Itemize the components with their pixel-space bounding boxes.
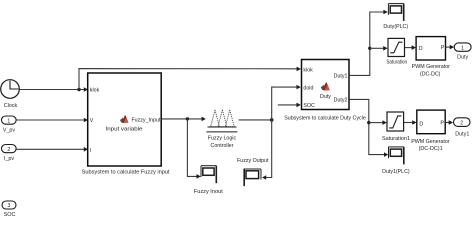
inport 2 I_pv: [2, 145, 17, 162]
svg-text:P: P: [440, 120, 444, 126]
svg-text:Clock: Clock: [4, 103, 18, 109]
svg-text:I: I: [90, 148, 91, 154]
svg-text:D: D: [419, 121, 423, 127]
outport 1 Duty: [454, 43, 471, 61]
svg-text:P: P: [441, 45, 445, 51]
wire Fuzzy_Input output to Fuzzy Logic Controller: [161, 117, 205, 122]
scope Fuzzy Inout: [194, 166, 224, 196]
svg-text:SOC: SOC: [303, 103, 315, 109]
svg-text:Duty2: Duty2: [334, 98, 348, 104]
wire PWM1 output to outport 2: [445, 120, 453, 125]
svg-text:PWM Generator: PWM Generator: [412, 64, 451, 70]
fuzzy-logic-controller bottom edge: [206, 131, 237, 133]
svg-text:1: 1: [7, 118, 10, 124]
svg-text:Duty: Duty: [457, 55, 468, 61]
wire Duty1 branch to Saturation: [370, 46, 388, 51]
node junction on clock wire: [77, 88, 80, 91]
wire fuzzy output up to dold input: [272, 85, 301, 120]
clock Clock: [1, 80, 20, 109]
svg-text:Fuzzy Logic: Fuzzy Logic: [208, 136, 237, 142]
wire Duty2 branch to Saturation1: [369, 120, 387, 125]
svg-text:Fuzzy Output: Fuzzy Output: [237, 158, 269, 164]
svg-text:I_pv: I_pv: [4, 156, 14, 162]
svg-text:Duty: Duty: [320, 94, 331, 100]
svg-text:Fuzzy Inout: Fuzzy Inout: [194, 189, 224, 195]
svg-text:(DC-DC)1: (DC-DC)1: [419, 146, 443, 152]
svg-text:2: 2: [7, 147, 10, 153]
svg-text:Input variable: Input variable: [106, 127, 143, 133]
svg-text:Fuzzy_Input: Fuzzy_Input: [131, 118, 160, 124]
subsystem U1 Subsystem to calculate Fuzzy input: [88, 73, 162, 166]
pwm-generator block PWM Generator (DC-DC)1: [411, 110, 450, 152]
scope Duty(PLC): [383, 4, 408, 30]
svg-text:Saturation1: Saturation1: [382, 136, 410, 142]
wire fuzzy controller output: [239, 119, 272, 121]
svg-text:Subsystem to calculate Fuzzy i: Subsystem to calculate Fuzzy input: [82, 170, 171, 176]
wire Saturation1 to PWM Generator (DC-DC)1: [404, 120, 417, 125]
svg-text:klok: klok: [303, 67, 313, 73]
MATLAB function icon inside U1: [120, 115, 129, 123]
svg-text:2: 2: [460, 120, 463, 126]
scope Duty1(PLC): [382, 147, 410, 175]
outport 2 Duty1: [454, 118, 471, 138]
svg-text:3: 3: [8, 203, 11, 209]
svg-text:V: V: [90, 118, 94, 124]
svg-text:klok: klok: [90, 88, 100, 94]
svg-text:Controller: Controller: [211, 143, 234, 149]
wire Duty1 output up to Duty(PLC) scope: [349, 10, 388, 76]
subsystem U3 Subsystem to calculate Duty Cycle: [302, 60, 350, 110]
svg-text:1: 1: [461, 45, 464, 51]
svg-text:(DC-DC): (DC-DC): [420, 72, 441, 78]
node junction Duty2: [367, 121, 370, 124]
wire PWM output to outport 1: [446, 45, 455, 50]
saturation block Saturation1: [382, 112, 410, 142]
svg-text:Duty1: Duty1: [334, 73, 348, 79]
wire SOC stub into Duty subsystem: [278, 103, 301, 108]
svg-text:D: D: [419, 46, 423, 52]
svg-text:PWM Generator: PWM Generator: [411, 139, 450, 145]
wire Saturation to PWM Generator (DC-DC): [405, 45, 416, 50]
node junction on Fuzzy_Input wire: [186, 117, 189, 120]
inport 1 V_pv: [2, 116, 17, 133]
wire clock branch up and across to Duty subsystem klok: [79, 67, 301, 90]
wire clock to klok input: [19, 87, 88, 92]
svg-text:Saturation: Saturation: [386, 60, 407, 66]
scope Fuzzy Output (mirrored): [237, 158, 269, 186]
svg-text:V_pv: V_pv: [3, 127, 16, 133]
wire Duty2 output down to Duty1(PLC) scope: [349, 99, 388, 156]
svg-text:SOC: SOC: [4, 212, 16, 218]
svg-text:dold: dold: [303, 85, 313, 91]
MATLAB function icon inside U3: [321, 82, 330, 91]
fuzzy-logic-controller U2 icon triangles: [211, 110, 235, 127]
svg-text:Subsystem to calculate Duty Cy: Subsystem to calculate Duty Cycle: [284, 116, 366, 122]
wire branch down to Fuzzy Inout scope: [187, 119, 200, 179]
node junction fuzzy output: [270, 118, 274, 122]
pwm-generator block PWM Generator (DC-DC): [412, 37, 451, 78]
wire fuzzy output down to Fuzzy Output scope: [262, 120, 272, 180]
inport 3 SOC (unconnected): [2, 201, 16, 218]
wire I_pv to I input: [16, 147, 88, 152]
svg-text:Duty(PLC): Duty(PLC): [383, 24, 408, 30]
wire V_pv to V input: [16, 118, 88, 123]
fuzzy-logic-controller baseline: [208, 126, 237, 128]
node junction Duty1: [368, 47, 371, 50]
svg-text:Duty1: Duty1: [455, 131, 469, 137]
saturation block Saturation: [386, 38, 407, 65]
svg-text:Duty1(PLC): Duty1(PLC): [382, 169, 410, 175]
